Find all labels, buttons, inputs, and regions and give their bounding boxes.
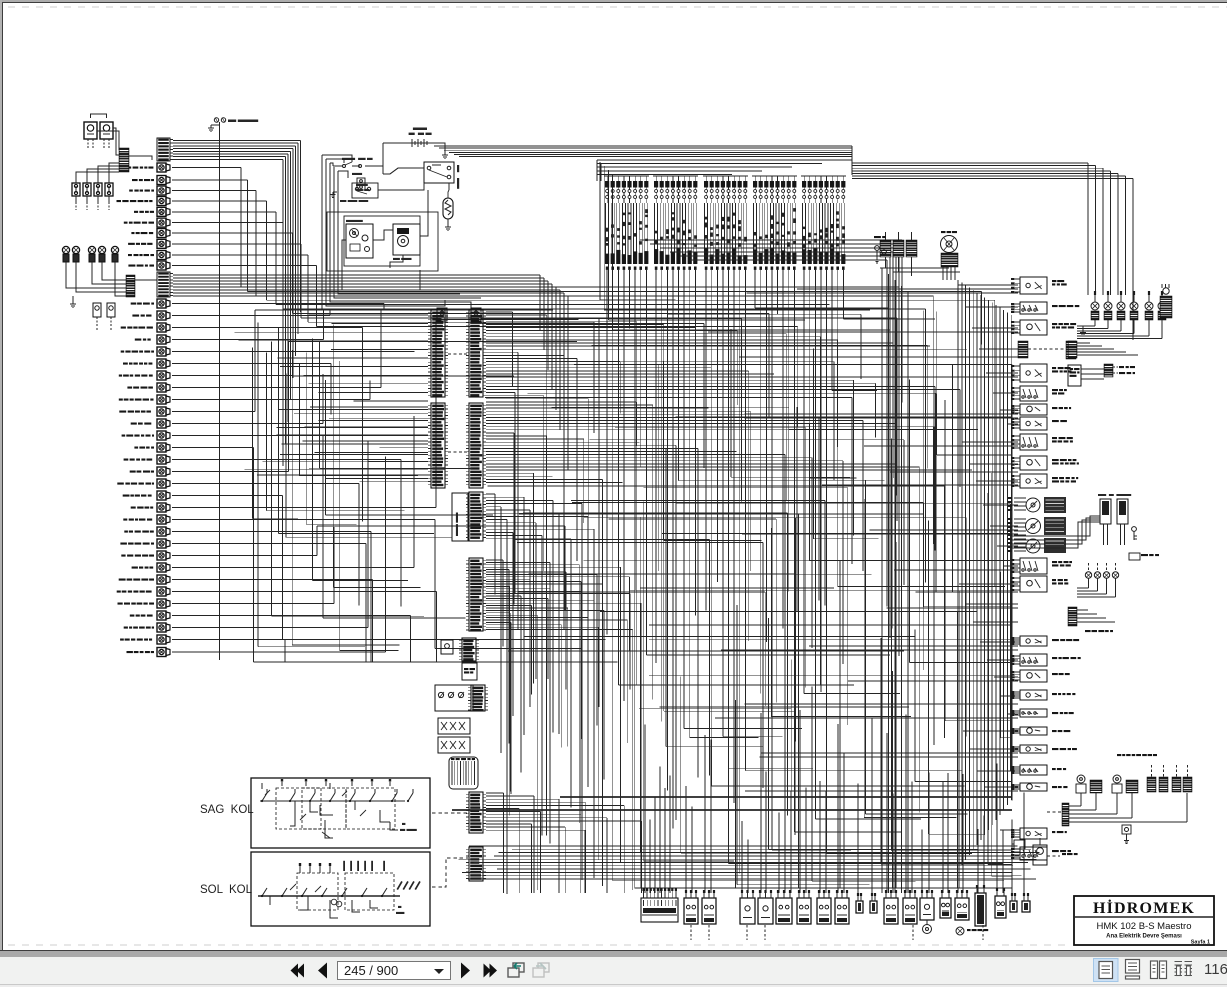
SAG KOL switches	[260, 800, 405, 802]
last page button	[484, 964, 492, 978]
battery B1 12V 100A/H	[413, 128, 427, 131]
ground	[72, 296, 74, 301]
dashed stubs below connectors	[690, 925, 692, 940]
connector pair below engine	[437, 308, 447, 321]
prev page button	[318, 963, 327, 979]
connector P35 with label	[117, 591, 121, 593]
relay R22	[1020, 828, 1047, 839]
lamp cluster L2	[1085, 572, 1091, 578]
wires descending into bottom connectors	[644, 725, 646, 894]
feeder drops	[599, 162, 601, 300]
connector B1	[684, 898, 698, 924]
wire dashed	[448, 451, 468, 453]
wire	[97, 131, 119, 150]
connector B10	[870, 901, 877, 913]
wire	[172, 543, 366, 545]
relay R7	[1020, 417, 1047, 430]
gauge sender	[923, 925, 932, 934]
connector P37 with label	[130, 615, 135, 617]
wire	[172, 254, 308, 256]
connector B15	[955, 898, 969, 920]
wire long top horizontals	[434, 145, 852, 147]
connector P2 with label	[132, 179, 138, 181]
connector P38 with label	[124, 627, 128, 629]
two page continuous icon	[1175, 962, 1193, 976]
fuse bank group 2	[654, 181, 658, 188]
connector P24 with label	[124, 459, 129, 461]
extra lamp connector	[1160, 296, 1172, 318]
connector P19 with label	[119, 399, 123, 401]
wires lamps	[1077, 342, 1090, 344]
first page button	[297, 964, 305, 978]
connector B13	[920, 898, 934, 920]
switch box E	[438, 718, 470, 734]
ground	[444, 152, 446, 155]
connector P20 with label	[119, 411, 126, 413]
fuse outputs descending	[606, 270, 608, 635]
wire thick bus	[560, 796, 1012, 798]
relay R12	[1020, 576, 1047, 592]
next page button	[461, 963, 470, 979]
connector P27 with label	[123, 495, 130, 497]
wire	[1081, 368, 1104, 370]
wire	[172, 639, 285, 641]
relay R11	[1020, 558, 1047, 574]
wire	[91, 114, 107, 118]
connector P5 with label	[134, 211, 138, 213]
connector B18	[1010, 901, 1017, 912]
small module pair	[441, 640, 453, 654]
wire	[172, 243, 301, 245]
single page layout icon (active)	[1094, 959, 1119, 982]
fuse bank group 3	[704, 181, 708, 188]
relay R18	[1020, 727, 1047, 735]
pump P1	[1077, 775, 1085, 783]
SOL KOL switches	[258, 895, 400, 897]
wire	[172, 579, 373, 581]
relay R5	[1020, 386, 1047, 401]
connector B12	[903, 898, 917, 924]
AC solenoid cluster label	[1117, 754, 1121, 756]
aux connector	[1129, 553, 1140, 560]
relay R20	[1020, 765, 1047, 775]
wire	[172, 303, 384, 305]
SOL KOL box	[251, 852, 430, 926]
fuse box feeder bus	[597, 159, 852, 161]
previous view icon	[513, 963, 524, 972]
backbone connector X5	[469, 792, 483, 833]
wire	[172, 232, 293, 234]
fuse bank group 4	[753, 181, 757, 188]
wire	[172, 411, 255, 413]
wire	[382, 143, 384, 174]
relay R8	[1020, 434, 1047, 450]
wire bundle valves	[1012, 516, 1100, 536]
gauge G3	[1026, 539, 1040, 553]
wire	[172, 167, 241, 169]
wire	[172, 603, 334, 605]
connector B19	[1022, 901, 1030, 912]
fuse 30/7/11	[356, 184, 368, 186]
wire	[172, 615, 410, 617]
relay R23	[1020, 847, 1047, 860]
stubs from right bundle to relay column	[958, 284, 1018, 286]
connector B7	[817, 898, 831, 924]
connector P8 with label	[128, 243, 135, 245]
wire	[172, 591, 436, 593]
bottom bus bundle	[469, 845, 1017, 847]
connector P4 with label	[117, 200, 122, 202]
switch box F	[438, 737, 470, 753]
wire	[172, 363, 331, 365]
wire mesh center	[790, 660, 792, 889]
wires fusebox to right relays	[640, 239, 902, 241]
connector block L2	[1068, 607, 1077, 626]
backbone connector X6	[469, 847, 483, 881]
lamp cluster L1	[1091, 302, 1099, 310]
AC wires	[1069, 805, 1081, 807]
relay R9	[1020, 456, 1047, 470]
chassis ground EKSI BAGLANTISI	[214, 118, 218, 122]
conn pair above	[1014, 840, 1025, 849]
connector B16	[975, 893, 986, 926]
wire bundle from J1 staircase	[173, 140, 301, 142]
beacon	[941, 236, 958, 253]
wire	[172, 651, 385, 653]
connector B4	[758, 898, 773, 924]
wire harness from sensors	[66, 270, 128, 288]
radio connector	[1104, 364, 1113, 377]
connector P33 with label	[132, 567, 138, 569]
connector P10 with label	[128, 265, 135, 267]
wire loops engine	[322, 155, 437, 310]
gauge G1	[1026, 498, 1040, 512]
backbone connector X1 right	[469, 310, 483, 397]
title block HIDROMEK	[1074, 896, 1214, 945]
connector P40 with label	[127, 651, 133, 653]
radio module G	[449, 757, 478, 789]
wire	[172, 495, 282, 497]
wire	[172, 265, 317, 267]
connector stack multipin block J2	[157, 272, 170, 297]
relay R17	[1020, 709, 1047, 717]
relay R13	[1020, 636, 1047, 646]
backbone connector X2 left	[431, 403, 445, 488]
connector P36 with label	[118, 603, 123, 605]
wire	[172, 531, 371, 533]
relay R1	[1020, 277, 1047, 294]
wire	[172, 327, 363, 329]
connector P25 with label	[130, 471, 136, 473]
starter motor MARS MOTORU	[393, 224, 420, 255]
connector P30 with label	[124, 531, 128, 533]
connector B8	[835, 898, 849, 924]
AC connectors	[1147, 777, 1156, 792]
svg-text:HİDROMEK: HİDROMEK	[1093, 898, 1195, 917]
ground	[333, 191, 337, 193]
continuous layout icon	[1126, 960, 1140, 974]
wire	[172, 567, 414, 569]
small sensors left of cluster	[875, 246, 880, 251]
fuse 30/7/14	[342, 158, 373, 160]
relay R16	[1020, 690, 1047, 700]
wire	[172, 399, 370, 401]
wires into backbone left pins	[309, 314, 428, 316]
starter relay MARS ROLESI	[424, 162, 454, 183]
connector P34 with label	[119, 579, 126, 581]
relay R2	[1020, 302, 1047, 314]
connector P32 with label	[121, 555, 125, 557]
backbone connector X1 left	[431, 310, 445, 397]
wire	[172, 190, 256, 192]
ground	[447, 224, 449, 227]
svg-text:Sayfa 1: Sayfa 1	[1191, 940, 1210, 946]
wire right bundle vertical	[957, 280, 959, 870]
connector block lamps	[1068, 341, 1077, 358]
ground	[1082, 326, 1084, 330]
wire	[172, 423, 323, 425]
backbone connector X2 right	[469, 403, 483, 488]
connector B9	[856, 901, 863, 913]
relay R15	[1020, 670, 1047, 682]
connector P22 with label	[122, 435, 126, 437]
connector P16 with label	[123, 363, 128, 365]
connector P15 with label	[121, 351, 125, 353]
svg-text:SOL KOL: SOL KOL	[200, 884, 253, 896]
fuse bank group 5	[802, 181, 806, 188]
next view icon disabled	[538, 963, 549, 972]
page frame dashes	[8, 6, 1227, 8]
oil pressure cluster	[880, 240, 891, 257]
two page layout icon	[1151, 961, 1158, 979]
wire	[448, 190, 449, 198]
connector P18 with label	[127, 387, 132, 389]
connector P7 with label	[131, 232, 134, 234]
relay K2	[100, 122, 113, 139]
wire bundle lower connectors to bottom	[486, 792, 504, 794]
svg-text:HMK 102 B-S Maestro: HMK 102 B-S Maestro	[1096, 921, 1191, 932]
radio box	[1068, 365, 1081, 386]
wire	[172, 483, 359, 485]
gauge G2	[1026, 519, 1041, 534]
monitor module box	[452, 493, 468, 541]
svg-text:SAG KOL: SAG KOL	[200, 804, 254, 816]
wire	[172, 200, 267, 202]
connector P12 with label	[132, 315, 139, 317]
SAG KOL box	[251, 778, 430, 848]
small comp w ground	[1122, 825, 1131, 834]
connector P1 with label	[123, 167, 126, 169]
dashed leads	[75, 202, 77, 210]
backbone connector X3	[469, 492, 483, 541]
valve connector V1	[1100, 499, 1111, 524]
wire	[172, 387, 381, 389]
relay R6	[1020, 404, 1047, 415]
relay R14	[1020, 654, 1047, 666]
key symbol	[1132, 527, 1137, 532]
connector B11	[884, 898, 898, 924]
wire upper-right staircase	[852, 162, 1088, 164]
connector P26 with label	[117, 483, 124, 485]
wire mesh backbone fanout	[486, 311, 513, 313]
relay R21	[1020, 783, 1047, 791]
wire	[172, 435, 323, 437]
wire mesh lower-center horizontals	[584, 560, 966, 562]
dashed link to SOL KOL	[432, 858, 468, 887]
connector P13 with label	[121, 327, 126, 329]
relay R19	[1020, 745, 1047, 753]
wire	[172, 447, 254, 449]
connector P21 with label	[131, 423, 137, 425]
wire	[172, 471, 289, 473]
connector B14	[940, 898, 951, 918]
dropdown arrow	[437, 968, 447, 974]
valve connector V2	[1117, 499, 1128, 524]
connector B2	[702, 898, 716, 924]
connector stack multipin block J1	[157, 138, 170, 161]
pins gauges	[1014, 497, 1026, 499]
wire	[383, 168, 424, 174]
relay K1	[84, 122, 97, 139]
wire	[172, 222, 283, 224]
wire	[383, 142, 408, 144]
dashed link to SAG KOL	[432, 812, 468, 814]
wire bundle monitor	[486, 493, 495, 495]
connector P9 with label	[128, 254, 132, 256]
pump P2	[1113, 775, 1121, 783]
fuse 30/7/8 cluster	[352, 173, 362, 175]
connector B17	[995, 896, 1006, 918]
wires beacon	[880, 267, 949, 269]
heater coil	[443, 198, 453, 219]
fuse row F1-F4	[72, 183, 80, 196]
connector B3	[740, 898, 755, 924]
connector P39 with label	[120, 639, 124, 641]
wire bundle left-mid	[252, 348, 254, 519]
switch box D	[435, 685, 473, 711]
wire	[172, 507, 436, 509]
AC connector bar	[1062, 803, 1069, 826]
connector pair mid	[1018, 341, 1028, 358]
wire	[172, 519, 435, 521]
lamp w dashes	[956, 927, 964, 935]
connector P23 with label	[134, 447, 138, 449]
wire	[172, 375, 293, 377]
alternator	[346, 220, 363, 222]
connector B6	[797, 898, 811, 924]
backbone connector X4	[469, 558, 483, 631]
connector block H2	[126, 275, 135, 297]
sensor group S1-S5	[62, 246, 69, 253]
relay R10	[1020, 474, 1047, 488]
switch pair	[93, 303, 101, 317]
main harness connector bottom	[641, 898, 678, 922]
wire	[172, 351, 415, 353]
fuse bank group 1	[605, 181, 609, 188]
wire	[172, 459, 401, 461]
connector P28 with label	[131, 507, 136, 509]
connector B5	[776, 898, 792, 924]
connector P29 with label	[123, 519, 127, 521]
engine enclosure boxes	[344, 216, 420, 266]
glow plug relay	[352, 183, 378, 198]
wire	[172, 555, 317, 557]
connector P31 with label	[120, 543, 127, 545]
wire	[129, 156, 152, 160]
wire	[172, 179, 247, 181]
connector P14 with label	[135, 339, 142, 341]
connector P3 with label	[129, 190, 133, 192]
wire	[172, 627, 368, 629]
connector P17 with label	[119, 375, 122, 377]
wire dashed	[448, 353, 468, 355]
SOL KOL rotated pin labels	[397, 881, 403, 890]
relay R3	[1020, 320, 1047, 335]
wire	[172, 315, 330, 317]
relay R4	[1020, 364, 1047, 382]
wire	[172, 339, 323, 341]
wire	[135, 279, 157, 281]
connector P11 with label	[131, 303, 137, 305]
connector block H1	[119, 148, 129, 172]
connector with circle right	[1033, 845, 1047, 865]
connector P6 with label	[124, 222, 128, 224]
wire long verticals right-center	[881, 268, 883, 893]
wire	[172, 211, 276, 213]
wire bundle from J2	[173, 274, 540, 276]
svg-text:Ana Elektrik Devre Şeması: Ana Elektrik Devre Şeması	[1106, 934, 1182, 940]
wires L2	[1077, 609, 1088, 611]
